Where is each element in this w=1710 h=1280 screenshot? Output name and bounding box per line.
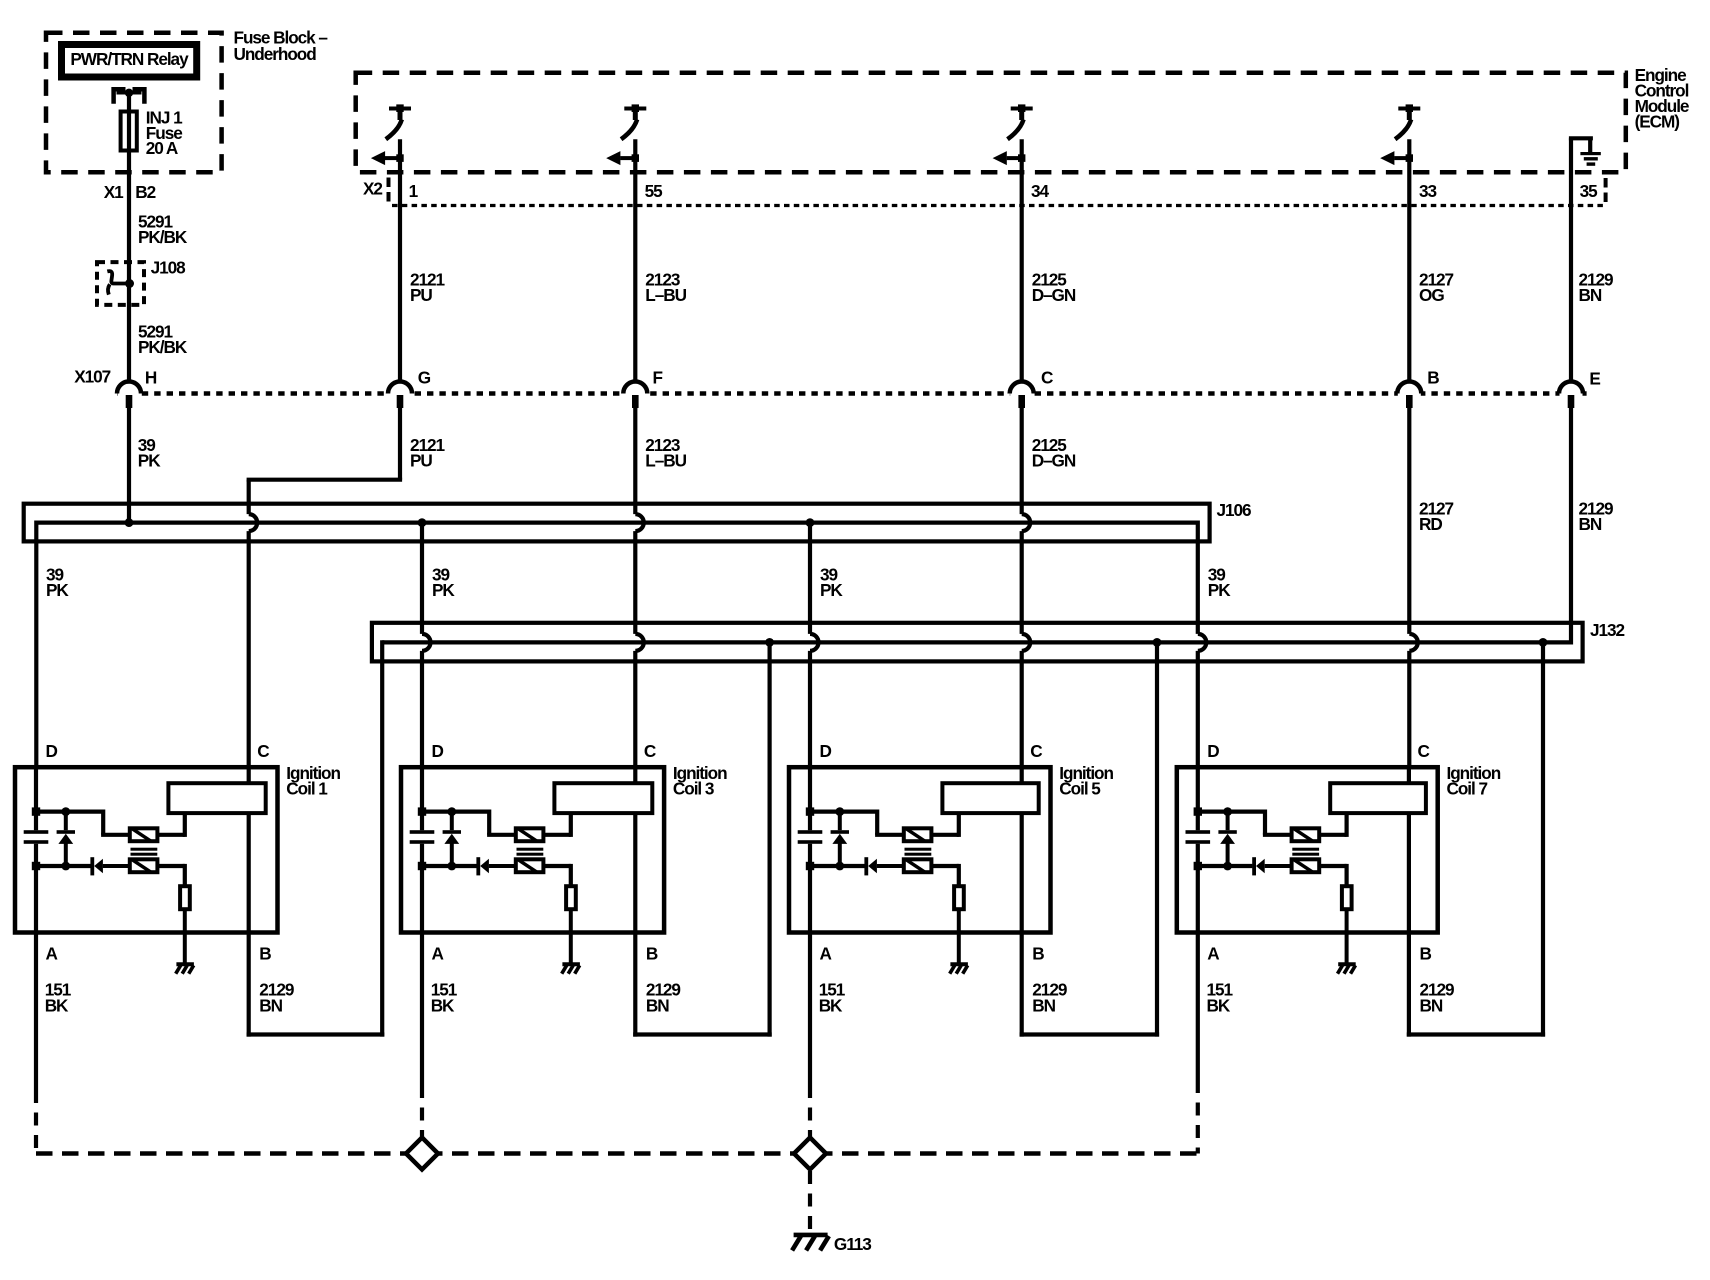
coil 7 node square upper: [1194, 807, 1202, 815]
wire 151 BK coil5 dashed to splice: [808, 1085, 812, 1138]
fuse block - underhood dashed box: [46, 33, 222, 173]
splice J108 dashed box: [97, 262, 144, 305]
svg-text:X107: X107: [74, 367, 110, 387]
coil 3 wire secondary to B pin: [633, 813, 637, 932]
svg-text:PK: PK: [432, 580, 455, 600]
svg-text:BN: BN: [1579, 285, 1602, 305]
coil 1 secondary coil (HV) box: [168, 783, 265, 813]
wire 2129 BN coil5-B to J132: [1020, 933, 1024, 1037]
coil 7 wire lower node to diode: [1198, 864, 1253, 868]
connector X107 dotted line: [117, 391, 1588, 396]
svg-text:B: B: [1032, 943, 1044, 963]
svg-text:PK/BK: PK/BK: [138, 227, 188, 247]
coil 1 node square upper: [32, 807, 40, 815]
wire 2129 BN coil7-B to J132: [1407, 933, 1411, 1037]
svg-text:C: C: [257, 741, 269, 761]
coil 5 junction dot upper: [835, 807, 844, 816]
junction dot J106 coil5 feed: [806, 518, 815, 527]
connector X107 terminal F: [624, 390, 647, 396]
wire 151 BK coil 7 A pin solid segment: [1196, 933, 1200, 1081]
junction dot J106 at 39 PK feed: [125, 518, 134, 527]
coil 3 wire resistor to ground: [569, 909, 573, 964]
svg-text:J108: J108: [151, 257, 187, 277]
coil 7 internal ground: [1338, 962, 1356, 966]
coil 7 wire primary winding to secondary coil: [1319, 833, 1346, 837]
wire 2121 PU pin1 to X107-G: [398, 139, 402, 381]
svg-text:B: B: [1427, 367, 1439, 387]
svg-text:D–GN: D–GN: [1032, 285, 1076, 305]
ground G113 symbol: [794, 1233, 828, 1238]
svg-text:20 A: 20 A: [146, 138, 178, 158]
coil 3 resistor: [566, 886, 576, 909]
svg-text:D: D: [820, 741, 832, 761]
coil 1 core: [131, 848, 158, 851]
junction dot J132 coil3 return: [765, 638, 774, 647]
coil 5 primary feed bus (left vertical D to capacitor): [808, 767, 812, 830]
coil 1 wire C pin to secondary: [247, 767, 251, 783]
coil 5 core: [905, 848, 932, 851]
coil 7 wire C pin to secondary: [1407, 767, 1411, 783]
ECM driver output (transistor switch) pin 1: [389, 107, 411, 111]
svg-text:33: 33: [1419, 181, 1437, 201]
splice pack J106 outer box: [24, 504, 1210, 542]
svg-text:D: D: [46, 741, 58, 761]
coil 5 wire winding to resistor: [931, 864, 958, 868]
svg-text:C: C: [1030, 741, 1042, 761]
coil 1 wire lower node to diode: [36, 864, 91, 868]
svg-text:E: E: [1589, 368, 1600, 388]
svg-text:BK: BK: [431, 995, 455, 1015]
splice diamond at coil3 branch: [406, 1138, 438, 1170]
coil 1 secondary drive winding: [130, 859, 158, 872]
connector X107 terminal E: [1560, 390, 1583, 396]
connector X107 terminal H: [118, 390, 141, 396]
coil 1 ground rail (capacitor to A): [34, 844, 38, 933]
svg-text:BK: BK: [819, 995, 843, 1015]
coil 3 wire lower node to diode: [422, 864, 477, 868]
coil 7 primary winding: [1292, 828, 1320, 841]
wire 39 PK J106 to coil3-D: [420, 523, 424, 634]
svg-text:X2: X2: [363, 179, 382, 199]
coil 5 node square upper: [806, 807, 814, 815]
coil 7 resistor: [1342, 886, 1352, 909]
coil 7 wire winding to resistor: [1319, 864, 1346, 868]
svg-text:PK: PK: [820, 580, 843, 600]
fuse INJ 1 20 A: [121, 112, 137, 151]
svg-text:BN: BN: [646, 995, 669, 1015]
coil 7 wire resistor to ground: [1345, 909, 1349, 964]
svg-text:PK/BK: PK/BK: [138, 337, 188, 357]
svg-text:RD: RD: [1419, 514, 1442, 534]
svg-text:PK: PK: [46, 580, 69, 600]
wire 5291 PK/BK from relay through fuse to X107-H: [127, 93, 131, 382]
coil 5 node square lower: [806, 862, 814, 870]
svg-text:G113: G113: [834, 1234, 871, 1254]
wire 151 BK coil3 dashed to splice: [420, 1085, 424, 1138]
coil 7 junction dot lower: [1223, 862, 1232, 871]
coil 5 diode: [864, 857, 868, 875]
svg-text:X1: X1: [104, 182, 124, 202]
coil 1 capacitor: [24, 830, 49, 834]
splice J108 symbol: [125, 279, 134, 288]
coil 1 primary feed bus (left vertical D to capacitor): [34, 767, 38, 830]
svg-text:G: G: [418, 367, 431, 387]
wire 2123 L-BU pin55 to X107-F: [633, 139, 637, 381]
coil 5 wire C pin to secondary: [1020, 767, 1024, 783]
coil 7 wire secondary to B pin: [1407, 813, 1411, 932]
coil 5 primary winding: [904, 828, 932, 841]
svg-text:B: B: [259, 943, 271, 963]
svg-text:A: A: [432, 943, 444, 963]
svg-text:A: A: [46, 943, 58, 963]
svg-text:Underhood: Underhood: [234, 44, 317, 64]
coil 3 core: [517, 848, 544, 851]
ECM driver arrow pin 33: [1394, 156, 1409, 160]
wire dashed splice to G113: [808, 1171, 812, 1233]
coil 7 wire node to primary winding: [1198, 809, 1265, 813]
svg-text:C: C: [1418, 741, 1430, 761]
junction dot relay output: [125, 89, 133, 97]
wire 151 BK coil 5 A pin solid segment: [808, 933, 812, 1086]
svg-text:35: 35: [1580, 181, 1599, 201]
svg-text:A: A: [820, 943, 832, 963]
svg-text:PK: PK: [1208, 580, 1231, 600]
svg-text:L–BU: L–BU: [645, 285, 686, 305]
coil 1 wire primary winding to secondary coil: [157, 833, 184, 837]
svg-text:C: C: [644, 741, 656, 761]
svg-text:B2: B2: [135, 182, 155, 202]
coil 3 diode: [476, 857, 480, 875]
svg-text:D: D: [1207, 741, 1219, 761]
connector X107 terminal C: [1010, 390, 1033, 396]
svg-text:Coil 1: Coil 1: [286, 778, 328, 798]
junction dot J106 coil3 feed: [418, 518, 427, 527]
coil 3 internal ground: [562, 962, 580, 966]
wire 39 PK J106 to coil5-D: [808, 523, 812, 634]
ignition coil 3 box: [401, 767, 664, 932]
coil 3 wire primary winding to secondary coil: [543, 833, 570, 837]
ECM driver output (transistor switch) pin 33: [1398, 107, 1420, 111]
coil 3 wire winding to resistor: [543, 864, 570, 868]
coil 7 zener diode: [1226, 812, 1230, 831]
coil 1 junction dot lower: [61, 862, 70, 871]
coil 1 resistor: [180, 886, 190, 909]
connector X2 left tick: [387, 178, 391, 205]
coil 1 diode: [90, 857, 94, 875]
coil 3 secondary coil (HV) box: [554, 783, 652, 813]
coil 3 node square upper: [418, 807, 426, 815]
wire 39 PK X107-H to J106: [127, 408, 131, 523]
connector X107 terminal B: [1398, 390, 1421, 396]
wire 151 BK coil 3 A pin solid segment: [420, 933, 424, 1086]
coil 1 zener diode: [64, 812, 68, 831]
relay output terminal bracket: [114, 89, 126, 104]
ECM driver arrow pin 1: [385, 156, 400, 160]
wire 39 PK J106 to coil1-D: [34, 521, 38, 768]
svg-text:C: C: [1041, 367, 1053, 387]
svg-text:BN: BN: [1032, 995, 1055, 1015]
svg-text:B: B: [1420, 943, 1432, 963]
ECM driver arrow pin 34: [1007, 156, 1022, 160]
coil 5 internal ground: [950, 962, 968, 966]
svg-text:Coil 7: Coil 7: [1447, 778, 1488, 798]
coil 1 primary winding: [130, 828, 158, 841]
coil 7 primary feed bus (left vertical D to capacitor): [1196, 767, 1200, 830]
splice pack J132 outer box: [372, 623, 1583, 662]
coil 3 wire C pin to secondary: [633, 767, 637, 783]
coil 5 secondary coil (HV) box: [942, 783, 1038, 813]
junction dot J132 coil5 return: [1153, 638, 1162, 647]
wire 2127 OG pin33 to X107-B: [1407, 139, 1411, 381]
coil 3 node square lower: [418, 862, 426, 870]
coil 7 capacitor: [1186, 830, 1211, 834]
coil 5 wire node to primary winding: [810, 809, 877, 813]
connector X107 terminal G: [389, 390, 412, 396]
coil 1 wire resistor to ground: [183, 909, 187, 964]
svg-text:OG: OG: [1419, 285, 1444, 305]
coil 5 wire primary winding to secondary coil: [931, 833, 958, 837]
coil 5 wire lower node to diode: [810, 864, 865, 868]
coil 5 zener diode: [838, 812, 842, 831]
wire 2129 BN coil3-B to J132: [633, 933, 637, 1037]
coil 5 junction dot lower: [835, 862, 844, 871]
svg-text:PU: PU: [410, 450, 432, 470]
svg-text:BN: BN: [1420, 995, 1443, 1015]
coil 3 zener diode: [450, 812, 454, 831]
wire 2125 D-GN X107-C to coil5-C: [1020, 408, 1024, 514]
svg-text:F: F: [653, 367, 663, 387]
wire 151 BK coil 1 A pin solid segment: [34, 933, 38, 1091]
coil 7 node square lower: [1194, 862, 1202, 870]
svg-text:D–GN: D–GN: [1032, 450, 1076, 470]
coil 7 diode: [1252, 857, 1256, 875]
coil 1 node square lower: [32, 862, 40, 870]
svg-text:BN: BN: [1579, 514, 1602, 534]
svg-text:BK: BK: [1207, 995, 1231, 1015]
svg-text:1: 1: [409, 181, 419, 201]
ECM internal ground pin 35: [1569, 138, 1573, 381]
svg-text:J132: J132: [1590, 620, 1625, 640]
coil 5 wire secondary to B pin: [1020, 813, 1024, 932]
svg-text:B: B: [646, 943, 658, 963]
svg-text:Coil 3: Coil 3: [673, 778, 714, 798]
svg-text:D: D: [432, 741, 444, 761]
wire 151 BK coil1 dashed to ground bus: [34, 1090, 38, 1154]
connector X2 dotted line: [392, 204, 1606, 207]
svg-text:Coil 5: Coil 5: [1059, 778, 1101, 798]
svg-text:H: H: [145, 367, 157, 387]
svg-text:A: A: [1207, 943, 1219, 963]
svg-text:BN: BN: [259, 995, 282, 1015]
coil 7 core: [1292, 848, 1319, 851]
ECM driver arrow pin 55: [620, 156, 635, 160]
coil 3 ground rail (capacitor to A): [420, 844, 424, 933]
ECM driver output (transistor switch) pin 55: [624, 107, 646, 111]
coil 3 junction dot lower: [447, 862, 456, 871]
wire 2127 RD X107-B to coil7-C: [1407, 408, 1411, 634]
ECM driver output (transistor switch) pin 34: [1011, 107, 1033, 111]
coil 1 wire winding to resistor: [157, 864, 184, 868]
coil 3 wire node to primary winding: [422, 809, 489, 813]
svg-text:34: 34: [1031, 181, 1050, 201]
coil 1 internal ground: [176, 962, 194, 966]
coil 3 junction dot upper: [447, 807, 456, 816]
coil 7 ground rail (capacitor to A): [1196, 844, 1200, 933]
coil 3 primary winding: [516, 828, 544, 841]
ignition coil 5 box: [789, 767, 1051, 932]
splice diamond at coil5 branch / G113 feed: [794, 1138, 826, 1170]
splice pack J132 bus line: [382, 640, 1570, 644]
coil 7 secondary coil (HV) box: [1330, 783, 1426, 813]
coil 1 wire secondary to B pin: [247, 813, 251, 932]
engine control module ECM dashed box: [356, 73, 1626, 173]
wire 39 PK J106 to coil7-D: [1196, 521, 1200, 634]
junction dot J132 coil7 return: [1539, 638, 1548, 647]
connector X2 right tick: [1604, 178, 1608, 207]
svg-text:J106: J106: [1217, 500, 1252, 520]
wire 2121 PU X107-G jog to coil1-C: [398, 408, 402, 480]
coil 5 capacitor: [798, 830, 823, 834]
svg-text:55: 55: [645, 181, 664, 201]
ignition coil 7 box: [1177, 767, 1438, 932]
coil 3 primary feed bus (left vertical D to capacitor): [420, 767, 424, 830]
coil 1 junction dot upper: [61, 807, 70, 816]
ignition coil 1 box: [15, 767, 278, 932]
splice pack J106 bus line: [36, 520, 1198, 524]
coil 3 secondary drive winding: [516, 859, 544, 872]
coil 1 wire node to primary winding: [36, 809, 103, 813]
wire 2129 BN X107-E to J132: [1569, 408, 1573, 645]
wire 2129 BN coil1-B to J132 left end: [247, 933, 251, 1037]
svg-text:PU: PU: [410, 285, 432, 305]
wire 151 BK coil7 dashed to ground bus: [1196, 1080, 1200, 1154]
svg-text:BK: BK: [45, 995, 69, 1015]
coil 7 junction dot upper: [1223, 807, 1232, 816]
coil 5 ground rail (capacitor to A): [808, 844, 812, 933]
svg-text:L–BU: L–BU: [645, 450, 686, 470]
coil 7 secondary drive winding: [1292, 859, 1320, 872]
wire 2125 D-GN pin34 to X107-C: [1020, 139, 1024, 381]
relay K1 PWR/TRN Relay box: [62, 45, 197, 78]
svg-text:PK: PK: [138, 450, 161, 470]
svg-text:(ECM): (ECM): [1635, 111, 1680, 131]
coil 3 capacitor: [410, 830, 435, 834]
coil 5 wire resistor to ground: [957, 909, 961, 964]
ground bus 151 BK dashed horizontal: [36, 1151, 1198, 1156]
coil 5 secondary drive winding: [904, 859, 932, 872]
coil 5 resistor: [954, 886, 964, 909]
svg-text:PWR/TRN Relay: PWR/TRN Relay: [70, 49, 189, 69]
wire 2123 L-BU X107-F to coil3-C: [633, 408, 637, 514]
